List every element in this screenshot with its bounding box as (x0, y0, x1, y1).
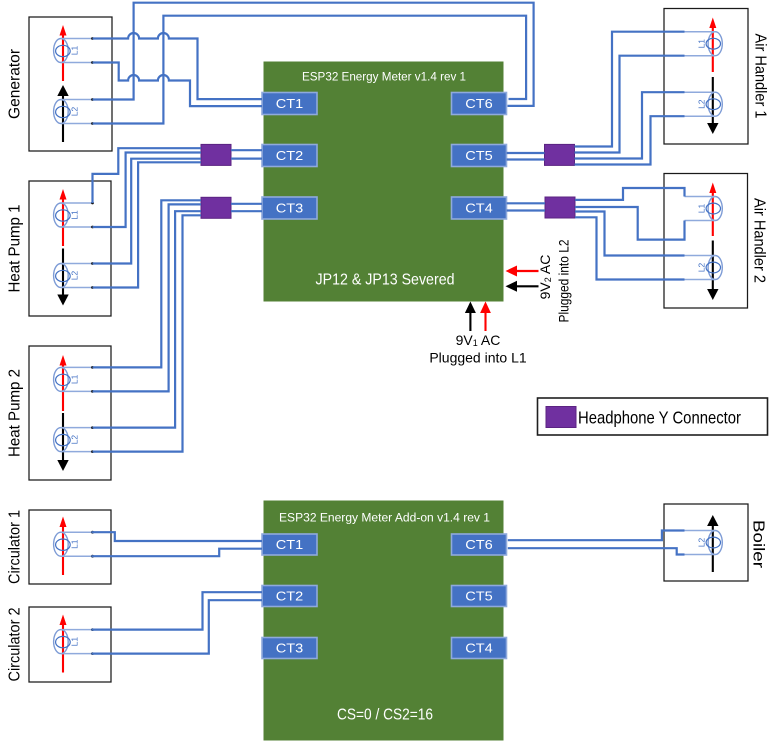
wire J4 pin 4 to air handler 2 L2 bottom (575, 217, 685, 279)
CT1 input board U1 (262, 93, 317, 115)
wire heat pump 2 L2 top to J2 pin 3 (93, 211, 202, 427)
svg-text:CT5: CT5 (465, 149, 493, 163)
wire generator L1 top to CT1 upper (hops over 2 wires) (93, 33, 263, 99)
svg-text:ESP32 Energy Meter v1.4 rev 1: ESP32 Energy Meter v1.4 rev 1 (302, 70, 466, 84)
generator L1 arrow (red, up) (60, 25, 67, 81)
svg-text:CT1: CT1 (276, 538, 304, 552)
svg-text:CT6: CT6 (465, 538, 493, 552)
headphone Y connector J3 (CT5) (545, 144, 575, 165)
wire CT5 to J3 lower (507, 158, 545, 160)
wire J4 pin 3 to air handler 2 L2 top (575, 212, 685, 256)
svg-text:L2: L2 (697, 538, 707, 548)
svg-text:L1: L1 (70, 210, 80, 220)
boiler L2 arrow (black, up) (707, 515, 718, 572)
wire circulator 1 CT top to U2 CT1 upper (92, 532, 263, 541)
boiler box (664, 504, 748, 581)
svg-text:L1: L1 (70, 46, 80, 56)
CT2 input board U2 (262, 586, 317, 607)
svg-text:L1: L1 (697, 39, 707, 49)
wire heat pump 2 L1 top to J2 pin 1 (93, 200, 202, 367)
headphone Y connector J4 (CT4) (545, 197, 575, 218)
svg-text:L2: L2 (697, 263, 707, 273)
svg-text:CT6: CT6 (465, 97, 493, 111)
wire heat pump 1 L2 bottom to J1 pin 4 (93, 162, 202, 287)
svg-text:L1: L1 (70, 637, 80, 647)
wire circulator 1 CT bottom to U2 CT1 lower (92, 549, 263, 557)
wire CT4 to J4 lower (507, 209, 546, 211)
heat pump 2 L2 arrow (black, down) (57, 413, 68, 471)
wire J3 pin 2 to air handler 1 L1 bottom (575, 56, 685, 153)
wire generator L2 bottom up over board to CT6 upper (93, 16, 527, 124)
air handler 1 L1 arrow (red, up) (709, 18, 716, 73)
circulator 2 L1 arrow (red, up) (60, 615, 67, 673)
air handler 2 L1 arrow (red, up) (709, 183, 716, 237)
heat pump 1 L2 arrow (black, down) (57, 249, 68, 306)
9V1 AC black arrow into board U1 bottom (465, 302, 476, 332)
svg-text:Headphone Y Connector: Headphone Y Connector (578, 408, 741, 428)
heat pump 2 box (29, 346, 111, 480)
svg-text:CT3: CT3 (276, 202, 304, 216)
heat pump 1 L1 arrow (red, up) (60, 189, 67, 246)
svg-text:L2: L2 (697, 99, 707, 109)
wire heat pump 1 L1 top to J1 pin 1 (93, 148, 202, 203)
svg-text:Plugged into L1: Plugged into L1 (429, 350, 527, 366)
air handler 2 CT on L2 (685, 256, 723, 280)
wire heat pump 1 L2 top to J1 pin 3 (93, 159, 202, 264)
air handler 1 CT on L2 (685, 92, 723, 116)
wire J1 to CT2 lower (231, 158, 262, 160)
CT6 input board U1 (452, 93, 507, 115)
svg-text:L1: L1 (697, 204, 707, 214)
svg-text:L1: L1 (70, 374, 80, 384)
svg-text:Circulator 2: Circulator 2 (7, 608, 24, 682)
svg-text:9V1 AC: 9V1 AC (456, 332, 501, 348)
ESP32 energy meter board U1 (264, 62, 503, 301)
svg-text:Heat Pump 2: Heat Pump 2 (7, 369, 24, 457)
svg-text:Air Handler 1: Air Handler 1 (752, 34, 769, 119)
circulator 1 L1 arrow (red, up) (60, 517, 67, 576)
wire J2 to CT3 lower (231, 210, 262, 212)
wire U2 CT6 upper to boiler CT top (508, 531, 685, 541)
svg-text:Boiler: Boiler (750, 520, 767, 568)
9V2 AC red arrow into board U1 right (506, 266, 539, 277)
heat pump 2 L1 arrow (red, up) (60, 355, 67, 411)
air handler 2 CT on L1 (685, 197, 723, 221)
CT3 input board U1 (262, 197, 317, 219)
CT2 input board U1 (262, 145, 317, 167)
CT3 input board U2 (262, 638, 317, 659)
wire J3 pin 3 to air handler 1 L2 top (575, 92, 685, 158)
svg-text:L1: L1 (70, 539, 80, 549)
wire J4 pin 2 to air handler 2 L1 bottom (575, 207, 685, 240)
svg-text:Generator: Generator (7, 49, 24, 119)
svg-text:Air Handler 2: Air Handler 2 (751, 198, 768, 283)
CT4 input board U1 (452, 197, 507, 219)
heat pump 2 CT on L2 (54, 426, 94, 453)
air handler 1 CT on L1 (685, 32, 723, 56)
wire J2 to CT3 upper (231, 203, 262, 205)
svg-text:L2: L2 (70, 435, 80, 445)
CT4 input board U2 (452, 638, 507, 659)
svg-text:Heat Pump 1: Heat Pump 1 (7, 205, 24, 293)
wire J3 pin 1 to air handler 1 L1 top (575, 32, 685, 147)
wire J4 pin 1 to air handler 2 L1 top (575, 188, 685, 200)
circulator 2 CT on L1 (54, 628, 94, 655)
9V1 AC red arrow into board U1 bottom (480, 302, 491, 332)
wire heat pump 2 L2 bottom to J2 pin 4 (93, 215, 202, 451)
CT5 input board U2 (452, 586, 507, 607)
air handler 1 box (664, 9, 748, 145)
circulator 1 box (29, 510, 111, 584)
generator CT on L2 (54, 98, 94, 125)
svg-text:CT2: CT2 (276, 149, 304, 163)
air handler 1 L2 arrow (black, down) (707, 77, 718, 134)
svg-text:JP12 & JP13 Severed: JP12 & JP13 Severed (316, 271, 455, 288)
svg-text:CS=0 / CS2=16: CS=0 / CS2=16 (337, 707, 433, 724)
wire U2 CT6 lower to boiler CT bottom (508, 548, 685, 554)
generator box (29, 17, 112, 151)
generator CT on L1 (54, 37, 94, 64)
wire CT5 to J3 upper (507, 152, 545, 154)
legend box (538, 398, 768, 435)
wire J1 to CT2 upper (231, 149, 262, 151)
circulator 1 CT on L1 (54, 531, 94, 558)
svg-text:ESP32 Energy Meter Add-on v1.4: ESP32 Energy Meter Add-on v1.4 rev 1 (279, 511, 490, 525)
wire J3 pin 4 to air handler 1 L2 bottom (575, 116, 685, 164)
svg-text:Circulator 1: Circulator 1 (7, 510, 24, 584)
wire CT4 to J4 upper (507, 202, 546, 204)
wire heat pump 1 L1 bottom to J1 pin 2 (93, 153, 202, 228)
svg-text:CT2: CT2 (276, 590, 304, 604)
svg-text:9V2 AC: 9V2 AC (537, 255, 553, 300)
generator L2 arrow (black, up) (57, 85, 68, 142)
svg-text:L2: L2 (70, 107, 80, 117)
svg-text:L2: L2 (70, 271, 80, 281)
wire circulator 2 CT bottom to U2 CT2 lower (92, 600, 263, 653)
legend headphone Y connector swatch (546, 407, 576, 428)
svg-text:CT1: CT1 (276, 97, 304, 111)
heat pump 1 CT on L2 (54, 262, 94, 289)
CT5 input board U1 (452, 145, 507, 167)
ESP32 energy meter add-on board U2 (264, 501, 503, 740)
headphone Y connector J2 (CT3) (201, 197, 231, 218)
CT1 input board U2 (262, 534, 317, 555)
svg-text:CT3: CT3 (276, 642, 304, 656)
circulator 2 box (29, 607, 111, 682)
headphone Y connector J1 (CT2) (201, 144, 231, 165)
heat pump 1 CT on L1 (54, 202, 94, 229)
wire generator L2 top up over board to CT6 lower (93, 3, 534, 106)
9V2 AC black arrow into board U1 right (506, 281, 539, 292)
air handler 2 L2 arrow (black, down) (707, 241, 718, 301)
svg-text:CT4: CT4 (465, 202, 493, 216)
heat pump 2 CT on L1 (54, 366, 94, 393)
svg-text:CT5: CT5 (465, 590, 493, 604)
boiler CT on L2 (685, 531, 723, 555)
wire generator L1 bottom to CT1 lower (hops over 2 wires) (93, 63, 263, 107)
svg-text:Plugged into L2: Plugged into L2 (556, 239, 572, 322)
air handler 2 box (664, 174, 748, 309)
svg-text:CT4: CT4 (465, 642, 493, 656)
wire heat pump 2 L1 bottom to J2 pin 2 (93, 204, 202, 391)
heat pump 1 box (29, 181, 111, 316)
CT6 input board U2 (452, 534, 507, 555)
wire circulator 2 CT top to U2 CT2 upper (92, 592, 263, 629)
